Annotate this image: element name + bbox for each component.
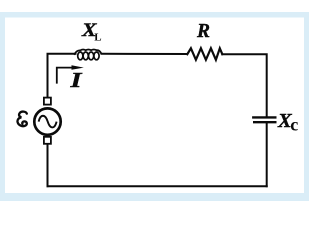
AC source bottom terminal — [44, 137, 51, 144]
wire: left lower segment — [47, 144, 49, 186]
capacitor XC bottom plate — [254, 121, 275, 123]
resistor R — [187, 48, 222, 60]
card inner white area — [5, 18, 304, 194]
svg-text:I: I — [69, 68, 82, 92]
wire: top-left corner and left upper segment — [48, 54, 76, 98]
inductor XL coil humps — [74, 50, 101, 55]
AC source circle — [34, 108, 60, 134]
capacitor XC top plate — [253, 116, 275, 118]
svg-text:L: L — [94, 32, 101, 44]
inductor XL loop 3 — [89, 52, 94, 60]
card background frame — [0, 12, 309, 201]
current arrow I — [57, 68, 74, 84]
svg-text:R: R — [196, 21, 210, 42]
wire: capacitor to bottom-right corner — [266, 123, 268, 186]
AC source top terminal — [44, 98, 51, 105]
inductor XL loop 2 — [83, 52, 88, 60]
wire: bottom — [48, 185, 267, 187]
EMF script-E symbol — [17, 112, 26, 127]
inductor XL loop 1 — [78, 52, 83, 60]
AC source sine wave — [39, 116, 57, 128]
wire: resistor to top-right corner, down to capacitor — [222, 54, 266, 116]
wire: inductor to resistor — [102, 53, 188, 55]
svg-text:c: c — [290, 115, 298, 135]
inductor XL loop 4 — [94, 52, 99, 60]
